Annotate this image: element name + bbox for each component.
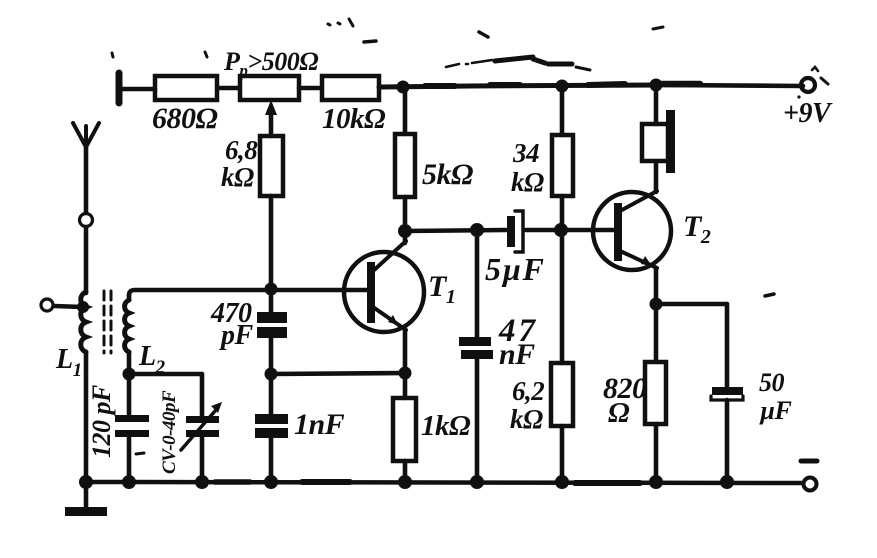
svg-text:10kΩ: 10kΩ <box>322 103 386 135</box>
svg-text:34: 34 <box>512 138 539 168</box>
svg-text:kΩ: kΩ <box>221 162 254 192</box>
svg-text:Pp>500Ω: Pp>500Ω <box>223 47 318 80</box>
svg-text:1nF: 1nF <box>294 408 345 441</box>
svg-text:µF: µF <box>759 396 791 425</box>
svg-text:kΩ: kΩ <box>510 404 543 434</box>
svg-text:1kΩ: 1kΩ <box>421 410 471 442</box>
svg-text:6,2: 6,2 <box>512 376 544 406</box>
svg-text:120 pF: 120 pF <box>87 385 116 458</box>
svg-text:CV-0-40pF: CV-0-40pF <box>159 390 180 474</box>
svg-text:+9V: +9V <box>783 98 833 129</box>
svg-text:kΩ: kΩ <box>511 167 544 197</box>
svg-text:50: 50 <box>759 368 785 397</box>
svg-text:Ω: Ω <box>608 397 630 429</box>
svg-text:pF: pF <box>219 320 254 351</box>
svg-text:5µF: 5µF <box>485 251 545 287</box>
svg-text:nF: nF <box>499 338 535 371</box>
svg-text:680Ω: 680Ω <box>152 102 218 135</box>
svg-text:5kΩ: 5kΩ <box>422 158 473 191</box>
svg-text:6,8: 6,8 <box>225 135 258 165</box>
